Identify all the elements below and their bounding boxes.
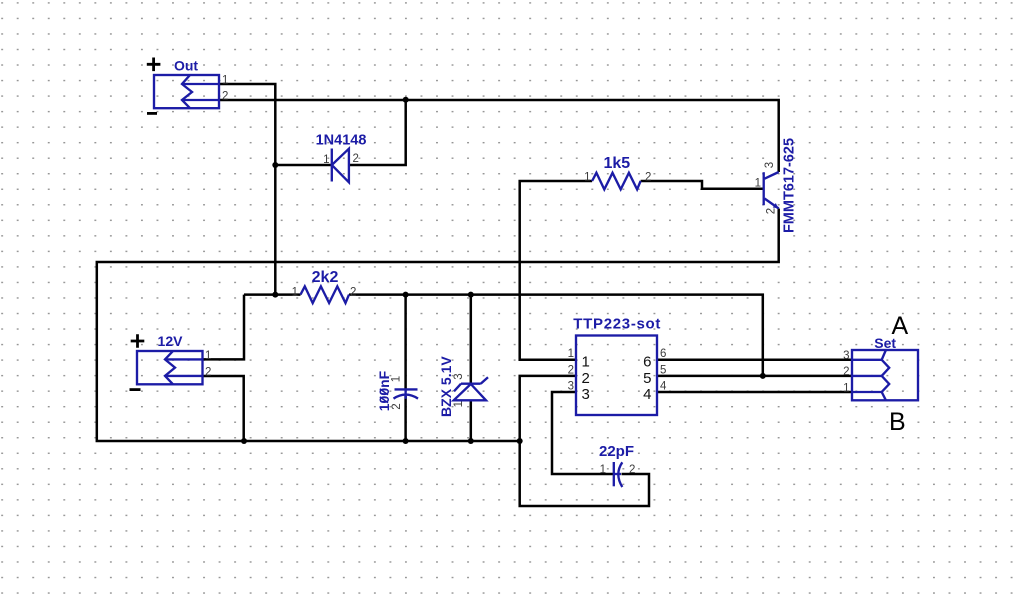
- svg-text:1: 1: [205, 350, 211, 362]
- junction bottom rail IC pin2 node: [517, 438, 523, 444]
- svg-text:1: 1: [584, 171, 590, 183]
- svg-text:A: A: [892, 312, 909, 340]
- svg-text:5: 5: [643, 370, 651, 387]
- connector J2 12V: [130, 333, 212, 390]
- wire IC pin1 up to 1k5 pin1: [520, 181, 592, 360]
- junction 2k2/100nF node: [403, 292, 409, 298]
- svg-text:4: 4: [660, 381, 667, 393]
- wire IC pin6 to Set pin3: [657, 359, 852, 362]
- connector J1 Out: [147, 57, 229, 113]
- svg-text:2: 2: [568, 364, 574, 376]
- wire 2k2 left to 12V pin1: [203, 295, 301, 360]
- wire 100nF branch: [404, 295, 407, 441]
- resistor R2 2k2: [292, 269, 357, 303]
- svg-text:6: 6: [643, 353, 651, 370]
- svg-text:6: 6: [660, 348, 666, 360]
- svg-text:FMMT617-625: FMMT617-625: [782, 138, 798, 233]
- svg-text:3: 3: [568, 381, 574, 393]
- capacitor C1 100nF: [376, 370, 418, 411]
- diode D1 1N4148: [316, 132, 367, 182]
- junction diode anode node: [272, 162, 278, 168]
- svg-text:4: 4: [643, 386, 651, 403]
- connector J3 Set: [843, 335, 918, 400]
- wire emitter loop left frame and bottom rail: [97, 209, 779, 442]
- junction top rail node: [403, 97, 409, 103]
- wire IC pin2 loop to 22pF pin2: [520, 376, 649, 506]
- junction IC pin5 rail node: [760, 373, 766, 379]
- svg-text:Out: Out: [174, 57, 198, 73]
- svg-text:1: 1: [323, 154, 329, 166]
- svg-text:1: 1: [755, 178, 761, 190]
- wire 2k2 rail to IC pin5 junction: [349, 295, 763, 376]
- junction bottom rail BZX node: [468, 438, 474, 444]
- wire IC pin4 to Set pin1: [657, 391, 852, 394]
- svg-text:2: 2: [350, 287, 356, 299]
- svg-text:BZX 5.1V: BZX 5.1V: [438, 356, 454, 417]
- svg-text:12V: 12V: [158, 333, 184, 349]
- junction bottom rail 12V node: [241, 438, 247, 444]
- wire 1k5 pin2 to transistor base: [641, 181, 763, 189]
- junction 2k2 pin1 node: [272, 292, 278, 298]
- svg-text:1: 1: [453, 401, 465, 407]
- svg-text:2: 2: [645, 171, 651, 183]
- svg-text:1: 1: [292, 287, 298, 299]
- wire diode anode branch: [275, 164, 332, 167]
- svg-text:2: 2: [582, 370, 590, 387]
- wire Out pin2 top rail to transistor collector: [219, 100, 779, 172]
- svg-text:3: 3: [764, 162, 776, 168]
- svg-text:2: 2: [629, 464, 635, 476]
- svg-text:1: 1: [582, 353, 590, 370]
- svg-text:2: 2: [353, 153, 359, 165]
- wire 12V pin2 to bottom rail: [203, 376, 244, 441]
- svg-text:2k2: 2k2: [312, 269, 339, 286]
- svg-text:5: 5: [660, 364, 666, 376]
- svg-text:1: 1: [843, 382, 849, 394]
- wire IC pin5 to Set pin2: [657, 375, 852, 378]
- svg-text:1: 1: [600, 464, 606, 476]
- svg-text:22pF: 22pF: [599, 443, 634, 460]
- resistor R1 1k5: [584, 155, 651, 189]
- wire BZX branch: [470, 295, 473, 441]
- svg-text:2: 2: [222, 91, 228, 103]
- junction 2k2/BZX node: [468, 292, 474, 298]
- capacitor C2 22pF: [599, 443, 635, 487]
- junction bottom rail 100nF node: [403, 438, 409, 444]
- svg-text:1: 1: [390, 376, 402, 382]
- svg-text:1N4148: 1N4148: [316, 132, 367, 148]
- svg-text:B: B: [889, 408, 906, 436]
- svg-text:3: 3: [453, 373, 465, 379]
- svg-text:1k5: 1k5: [603, 155, 630, 172]
- svg-text:1: 1: [222, 75, 228, 87]
- wire IC pin3 loop to 22pF pin1: [552, 392, 614, 474]
- svg-text:2: 2: [205, 366, 211, 378]
- svg-text:1: 1: [568, 348, 574, 360]
- svg-text:2: 2: [391, 403, 403, 409]
- wire Out pin1 down to 2k2 rail: [219, 84, 275, 295]
- svg-text:2: 2: [843, 366, 849, 378]
- svg-text:3: 3: [582, 386, 590, 403]
- wire diode cathode up to top rail: [349, 100, 406, 165]
- svg-text:TTP223-sot: TTP223-sot: [573, 316, 661, 333]
- transistor Q1 FMMT617-625: [755, 138, 798, 233]
- IC U1 TTP223-sot: [568, 316, 667, 416]
- svg-text:3: 3: [843, 350, 849, 362]
- diode D2 zener BZX 5.1V: [438, 356, 488, 417]
- svg-text:2: 2: [766, 208, 778, 214]
